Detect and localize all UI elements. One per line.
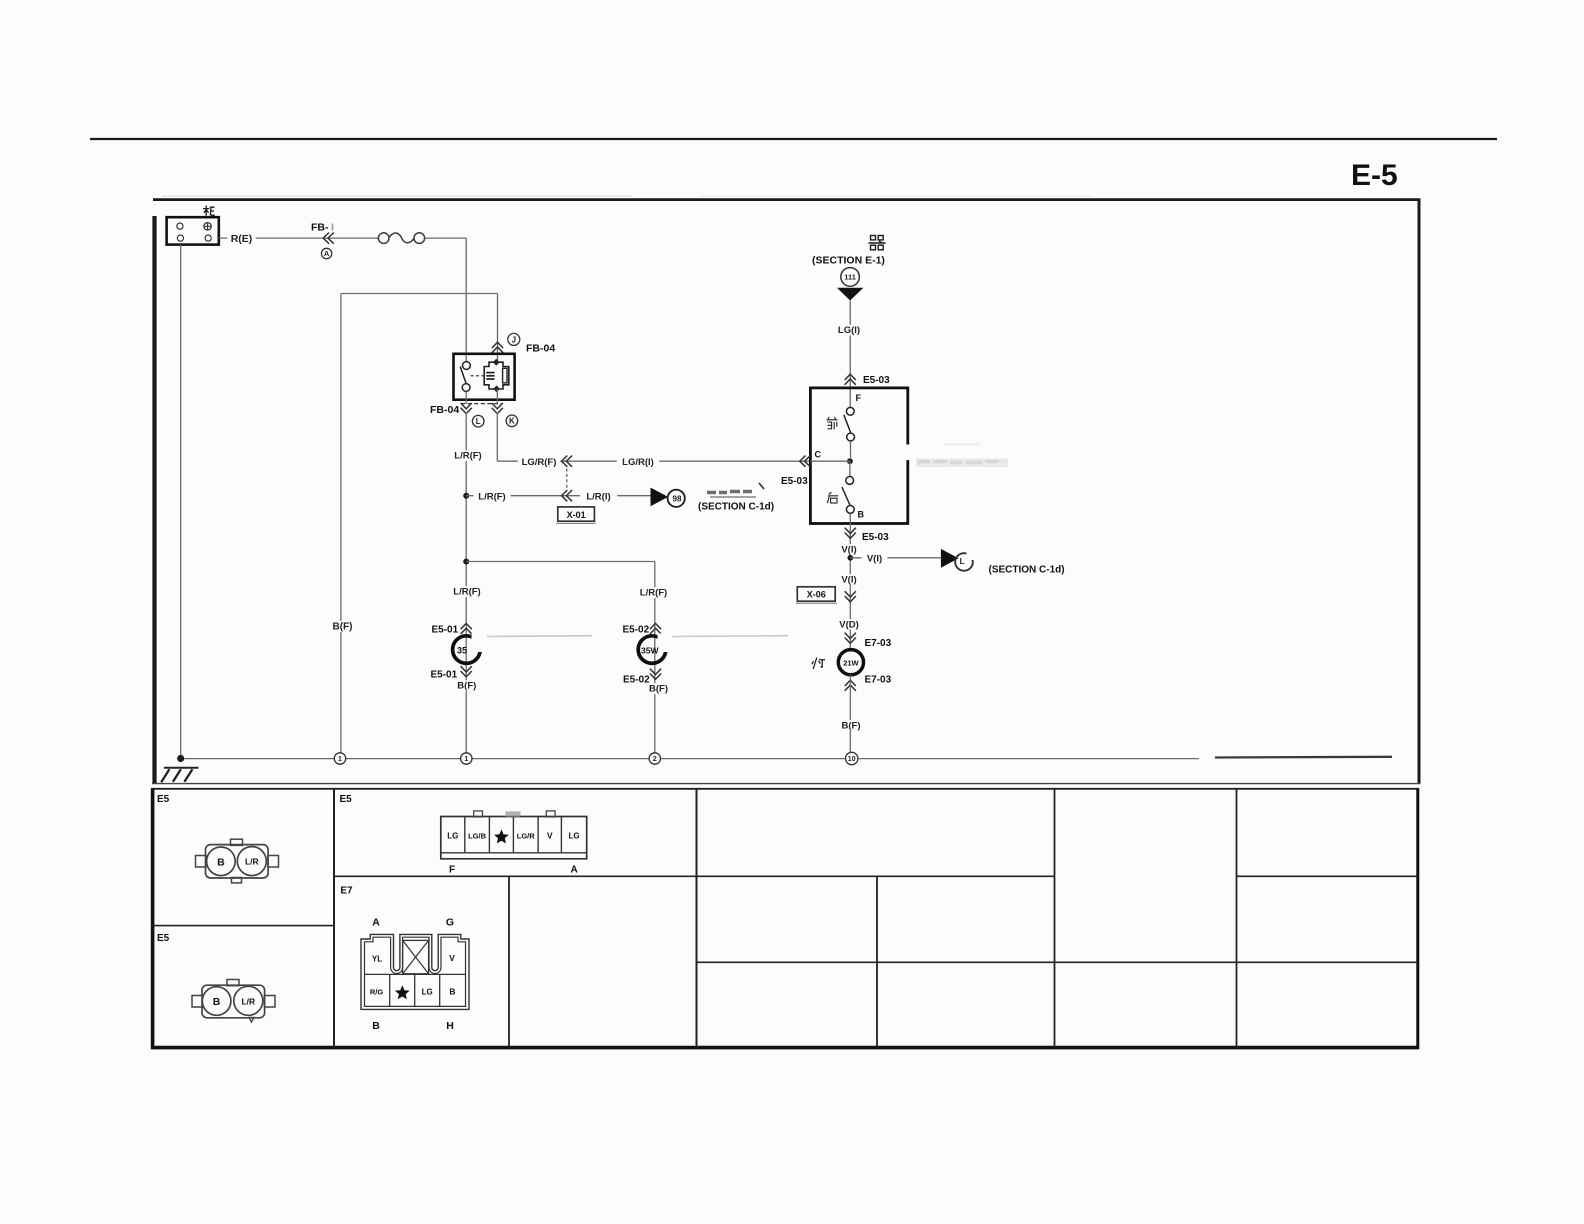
pin J [508, 333, 520, 345]
svg-text:(SECTION C-1d): (SECTION C-1d) [698, 502, 774, 513]
svg-text:111: 111 [844, 273, 856, 282]
svg-text:V: V [547, 831, 553, 841]
wire V(I) to rear fog [850, 557, 941, 559]
kanji label [869, 236, 886, 250]
connector X-01 box [558, 507, 595, 521]
wire label L/R(F) [635, 587, 672, 598]
node terminal 2 [649, 753, 660, 764]
svg-text:21W: 21W [843, 659, 859, 668]
connector E5-03 chevron bottom [845, 528, 856, 539]
wire label LG(I) [833, 325, 865, 336]
svg-text:R/G: R/G [370, 988, 384, 997]
relay switch contacts [463, 362, 471, 370]
battery B1 [167, 217, 219, 244]
svg-text:B: B [217, 856, 225, 868]
wire label LG/R(I) [617, 457, 660, 468]
feed arrow [837, 288, 864, 301]
svg-text:F: F [449, 865, 455, 876]
svg-text:E5-03: E5-03 [781, 476, 808, 487]
connector X-01 chevron on L/R wire [562, 490, 573, 501]
svg-text:R(E): R(E) [231, 233, 253, 245]
wire branch to bulb E5-02 [466, 561, 655, 563]
page top rule [90, 138, 1497, 140]
svg-text:G: G [446, 917, 454, 929]
svg-text:E7-03: E7-03 [865, 675, 892, 686]
svg-text:L/R(I): L/R(I) [586, 491, 610, 502]
pin K [506, 415, 518, 427]
smudge right of bulb [487, 635, 592, 638]
svg-text:(SECTION E-1): (SECTION E-1) [812, 255, 885, 267]
wire label LG/R(F) [518, 457, 561, 468]
node branch to second bulb [463, 559, 469, 565]
table verticals [333, 789, 335, 1048]
svg-text:V(D): V(D) [839, 619, 859, 630]
svg-text:1: 1 [464, 756, 468, 763]
svg-text:L/R: L/R [245, 857, 259, 867]
svg-text:V(I): V(I) [841, 574, 856, 585]
blocked cavity X [403, 940, 429, 973]
svg-text:B: B [449, 987, 455, 997]
switch arm upper [844, 415, 851, 433]
wire label L/R(F) [449, 586, 486, 597]
wire bulb to ground [849, 675, 851, 753]
svg-text:A: A [571, 865, 578, 876]
wire label B(F) [454, 681, 480, 692]
connector E7-03 chevron [845, 633, 856, 644]
wire label B(F) [646, 683, 672, 694]
connector E5-02 face [202, 985, 265, 1018]
svg-text:L/R(F): L/R(F) [454, 451, 481, 462]
svg-text:A: A [372, 917, 380, 929]
wire label V(I) [862, 553, 888, 564]
wire relay K to switch LG/R [496, 413, 498, 462]
svg-text:LG: LG [447, 832, 458, 841]
svg-text:LG: LG [422, 988, 433, 997]
lamp kanji [812, 658, 825, 670]
wire label R(E) [227, 233, 255, 245]
svg-text:LG(I): LG(I) [838, 325, 860, 336]
bus extension segment [1215, 756, 1392, 759]
connector X-01 chevron on LG/R wire [562, 456, 573, 467]
wire relay coil to ground net B(F) [341, 293, 498, 295]
svg-text:E5: E5 [340, 794, 353, 805]
E7 pin rows [365, 973, 466, 975]
svg-text:B: B [372, 1020, 380, 1032]
svg-text:LG/R(F): LG/R(F) [522, 457, 557, 468]
connector FB chevron [323, 233, 334, 244]
svg-text:E5-01: E5-01 [432, 625, 459, 636]
svg-text:E5-02: E5-02 [623, 625, 650, 636]
wire battery to fuse [219, 237, 379, 239]
svg-text:E5-03: E5-03 [863, 375, 890, 386]
connector E5-03 face [441, 817, 587, 859]
connector X-06 box [797, 587, 835, 601]
connector E5-01 chevron [461, 623, 472, 634]
wire fuse to relay [425, 237, 467, 239]
fuse F1 [378, 233, 389, 244]
svg-text:J: J [512, 335, 516, 344]
label front [827, 417, 838, 429]
wire label B(F) [329, 621, 356, 632]
node terminal 1 [334, 753, 345, 764]
wire label V(I) [836, 544, 862, 555]
svg-text:L: L [476, 417, 481, 426]
svg-text:L/R: L/R [241, 996, 255, 1006]
white-out smudge over box edge [901, 445, 1019, 461]
wire relay L to bulbs L/R(F) [465, 413, 467, 753]
svg-text:B: B [213, 996, 221, 1008]
node ground junction [177, 755, 184, 762]
svg-text:E5: E5 [157, 933, 170, 944]
svg-text:V(I): V(I) [841, 544, 856, 555]
pin L [472, 415, 484, 427]
svg-text:C: C [815, 450, 822, 460]
scan noise along top border [162, 195, 632, 197]
bulb E7 21W rear fog [838, 650, 863, 675]
svg-text:X-01: X-01 [567, 510, 586, 520]
svg-text:YL: YL [372, 955, 382, 964]
svg-text:LG/B: LG/B [468, 832, 486, 841]
svg-text:V: V [449, 953, 455, 963]
table horizontals [151, 925, 334, 927]
svg-text:L: L [960, 556, 965, 566]
wire switch B down [849, 524, 851, 651]
pin A [321, 248, 331, 258]
node V(I) junction [847, 555, 853, 561]
svg-text:1: 1 [338, 756, 342, 763]
svg-text:FB-04: FB-04 [430, 404, 459, 416]
svg-text:E5-03: E5-03 [862, 532, 889, 543]
svg-text:B(F): B(F) [649, 684, 668, 695]
bulb E5 35W front fog [453, 636, 481, 664]
battery symbol mark [203, 206, 215, 216]
relay actuation dashed link [471, 375, 485, 377]
wire label V(D) [836, 619, 862, 630]
relay coil [484, 362, 509, 389]
svg-text:H: H [446, 1020, 454, 1032]
connector E5-02 chevron [650, 623, 661, 634]
svg-text:L/R(F): L/R(F) [640, 588, 667, 599]
svg-text:I: I [331, 222, 334, 234]
wire label L/R(F) [450, 450, 487, 461]
wire LG(I) down to switch [849, 301, 851, 408]
wire junction to horn relay L/R(I) [466, 495, 650, 497]
svg-text:L/R(F): L/R(F) [478, 491, 505, 502]
wire label L/R(F) [474, 491, 511, 502]
svg-text:10: 10 [848, 756, 856, 763]
svg-text:LG: LG [568, 832, 579, 841]
node C junction [847, 458, 853, 464]
wire to terminal C [810, 460, 850, 462]
svg-text:LG/R: LG/R [517, 832, 535, 841]
node L/R junction [463, 493, 469, 499]
connector E5-03 chevron top [845, 374, 856, 385]
bulb E5 35W front fog 2 [638, 636, 666, 664]
svg-text:E7: E7 [340, 886, 353, 897]
label rear [827, 492, 838, 503]
connector E5-03 chevron left [800, 456, 811, 467]
wire label V(I) lower [836, 574, 862, 585]
battery ground wire [180, 245, 182, 759]
switch arm lower [842, 487, 850, 506]
relay box [454, 354, 515, 400]
svg-text:E5-01: E5-01 [431, 670, 458, 681]
table frame [151, 788, 1419, 790]
connector E5-01 face [206, 845, 269, 878]
svg-text:35W: 35W [641, 645, 659, 655]
wire label L/R(I) [580, 491, 617, 502]
svg-text:F: F [856, 393, 862, 403]
ground bus wire [184, 758, 1199, 760]
smudged text [707, 492, 752, 493]
svg-text:B(F): B(F) [842, 721, 861, 732]
diagram border frame [153, 198, 1421, 201]
svg-text:E5: E5 [157, 794, 170, 805]
connector X-06 chevron [845, 591, 856, 602]
svg-text:A: A [324, 249, 330, 258]
fog light switch box [810, 388, 907, 524]
svg-text:V(I): V(I) [867, 553, 882, 564]
node 111 [841, 268, 860, 287]
svg-text:FB-: FB- [311, 222, 329, 234]
svg-text:E-5: E-5 [1351, 159, 1398, 192]
svg-text:35: 35 [457, 645, 467, 655]
node terminal 10 [846, 752, 858, 764]
signal arrow 98 [651, 488, 669, 507]
svg-text:LG/R(I): LG/R(I) [622, 457, 654, 468]
svg-text:(SECTION C-1d): (SECTION C-1d) [989, 565, 1065, 576]
connector E7-03 chevron lower [845, 680, 856, 691]
connector E7 face [361, 934, 469, 1009]
svg-text:E7-03: E7-03 [865, 638, 892, 649]
svg-text:98: 98 [673, 494, 682, 503]
connector label FB- [310, 220, 338, 232]
svg-text:X-06: X-06 [807, 590, 826, 600]
connector X-01 dashed boundary [566, 469, 568, 490]
signal arrow rear fog [941, 549, 959, 568]
svg-text:B(F): B(F) [457, 681, 476, 692]
svg-text:L/R(F): L/R(F) [453, 587, 480, 598]
svg-text:B(F): B(F) [333, 622, 353, 633]
switch lower contact [849, 461, 851, 476]
wire label B(F) [838, 720, 864, 731]
node terminal 1b [461, 753, 472, 764]
svg-text:FB-04: FB-04 [526, 343, 555, 355]
svg-text:B: B [858, 510, 865, 520]
svg-text:K: K [509, 417, 515, 426]
ground symbol [164, 767, 199, 769]
svg-text:2: 2 [653, 756, 657, 763]
connector FB-04 chevron J [492, 342, 503, 353]
